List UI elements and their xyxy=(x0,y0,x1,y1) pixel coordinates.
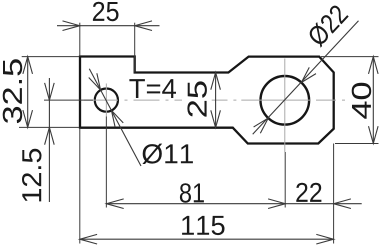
arrow 25v top xyxy=(211,72,221,89)
arrow 115 left xyxy=(80,234,97,244)
ext top dim 25 left xyxy=(79,23,81,57)
dim line 32.5 xyxy=(27,57,29,128)
arrow 12.5 bottom (outside below, points up) xyxy=(45,127,55,144)
text 81 xyxy=(180,183,204,203)
ext 40 top xyxy=(321,56,379,58)
ext small hole center to 81 dim xyxy=(105,117,107,208)
text 115 xyxy=(182,216,224,235)
arrow 40 bottom xyxy=(369,126,379,143)
text 12.5 xyxy=(22,149,42,202)
arrow 32.5 top (points up) xyxy=(23,57,33,74)
arrow at upper-right of big circle (points down-left) xyxy=(301,67,316,82)
text 32.5 xyxy=(3,59,23,123)
dim line 40 xyxy=(372,57,374,144)
dim line 25 vertical xyxy=(215,72,217,127)
leader Ø11 xyxy=(89,69,141,166)
arrow 25v bottom xyxy=(211,110,221,127)
ext 32.5 top xyxy=(22,56,79,58)
part outline xyxy=(80,57,334,144)
arrow at lower-left of big circle (points up-right) xyxy=(254,118,269,133)
leader Ø22 xyxy=(253,21,359,135)
dim line 25 top xyxy=(57,25,160,27)
ext 12.5 centerline xyxy=(44,99,93,101)
arrow 115 right xyxy=(316,234,333,244)
ext left edge to 115 dim xyxy=(79,128,81,244)
arrow 81 right / 22 left (points right) xyxy=(268,199,285,209)
text O11 xyxy=(142,144,193,164)
text 25top xyxy=(93,2,119,22)
dim line 81/22 xyxy=(106,203,361,205)
arrow 12.5 top (outside above, points down) xyxy=(45,83,55,100)
centerline vertical small hole xyxy=(105,84,107,117)
ext top dim 25 right xyxy=(134,23,136,73)
arrow 25 left (outside, points right) xyxy=(63,21,80,31)
hole C1 small Ø11 xyxy=(95,89,118,112)
text 22 xyxy=(296,183,321,202)
arrow at lower-right of small circle (points up-left) xyxy=(111,110,123,127)
ext right edge to 22/115 dim xyxy=(333,144,335,244)
text 40 xyxy=(352,83,372,119)
ext 40 bottom xyxy=(335,143,379,145)
arrow 32.5 bottom (points down) xyxy=(23,110,33,127)
arrow 22 right (outside, points left) xyxy=(334,199,351,209)
dim line 115 xyxy=(80,238,334,240)
text O22 xyxy=(306,3,349,47)
ext 32.5/12.5 bottom xyxy=(19,126,79,128)
dim line 12.5 xyxy=(48,78,50,202)
arrow 40 top xyxy=(369,57,379,74)
arrow at upper-left of small circle (points down-right) xyxy=(89,73,101,90)
arrow 81 left (points left) xyxy=(106,199,123,209)
centerline horizontal xyxy=(84,99,345,101)
text 25v xyxy=(187,81,207,116)
text T=4 xyxy=(129,79,176,98)
centerline vertical big hole xyxy=(284,59,286,153)
ext big hole center to 81/22 dim xyxy=(284,152,286,208)
arrow 25 right (outside, points left) xyxy=(135,21,152,31)
hole C2 big Ø22 xyxy=(261,76,310,125)
